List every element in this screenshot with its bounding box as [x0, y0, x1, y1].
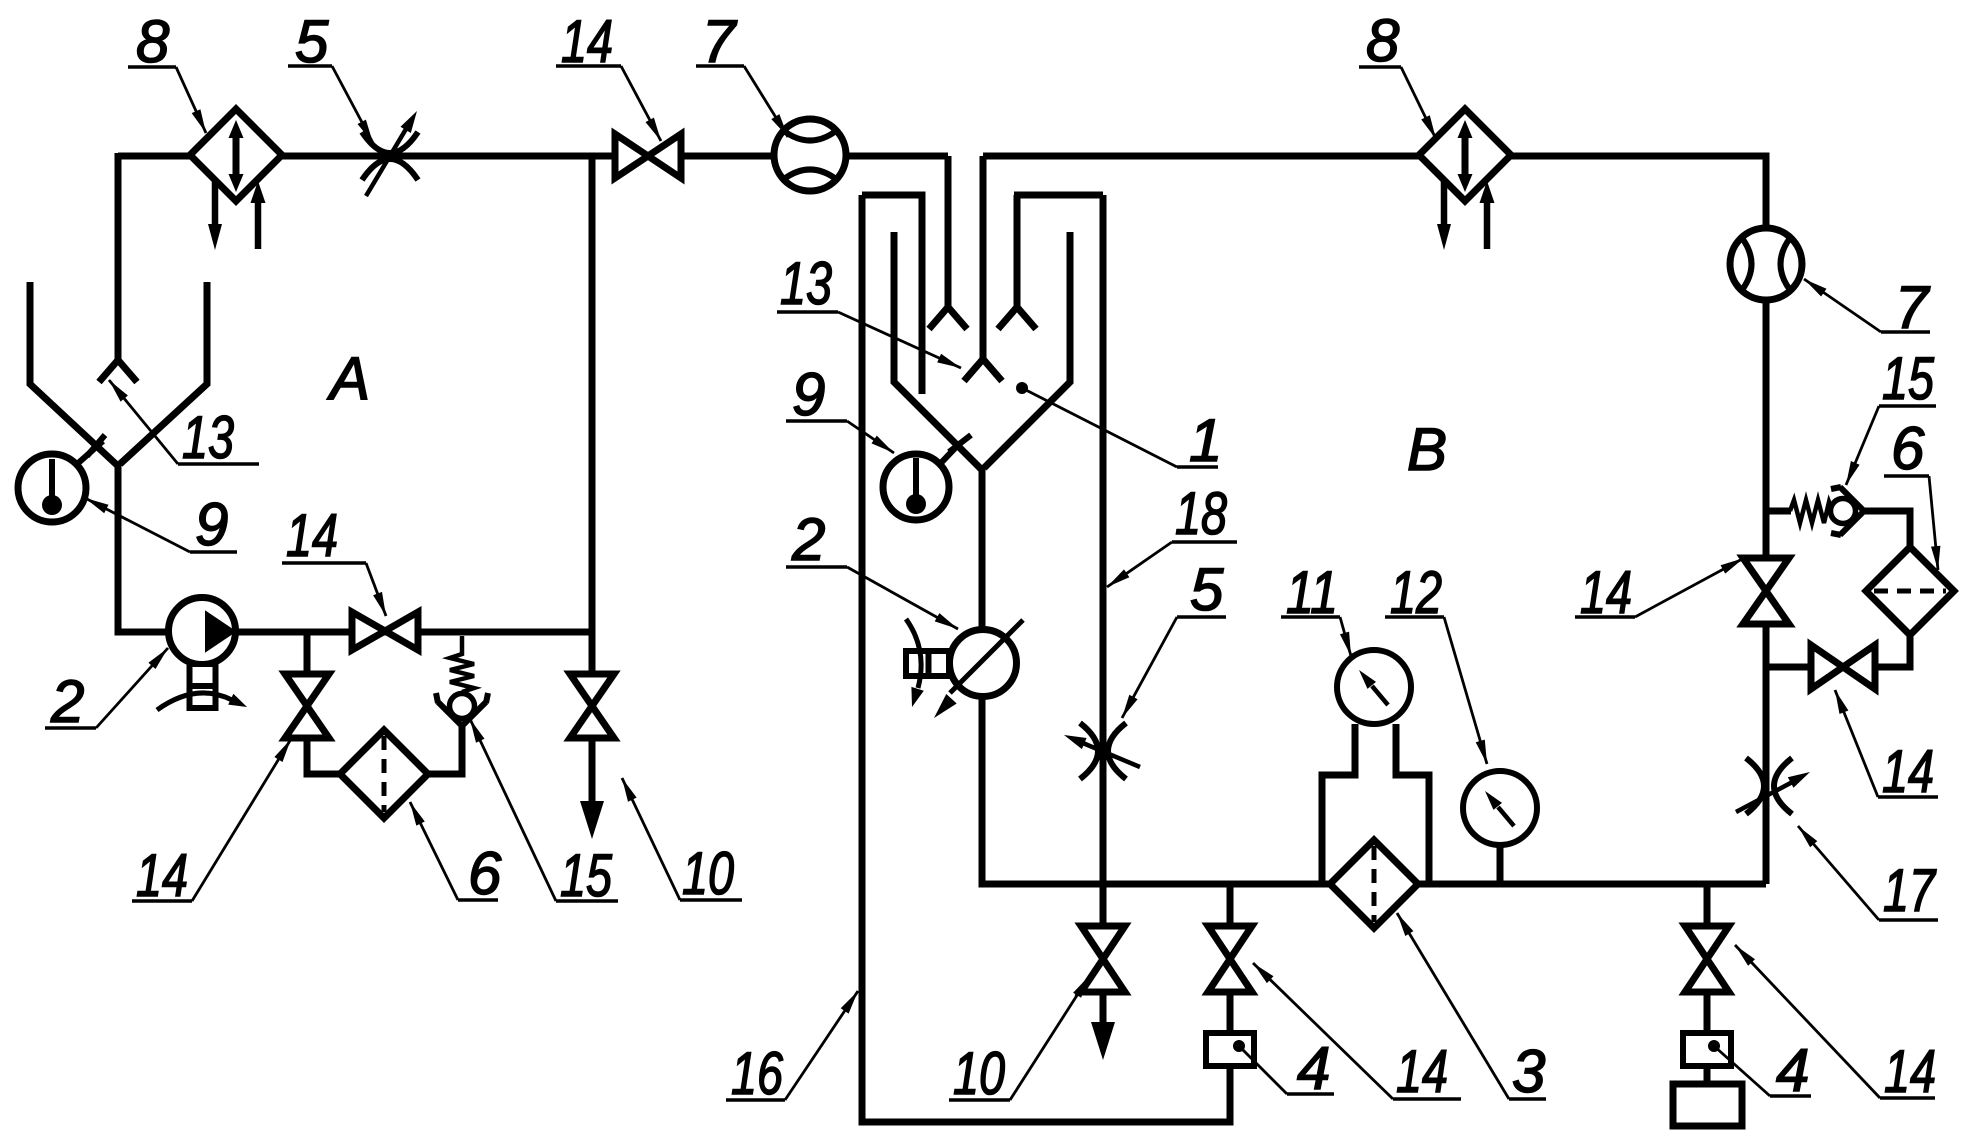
valve 14 on top line A [615, 134, 681, 178]
svg-text:15: 15 [560, 842, 612, 909]
throttle valve 17 arrow [1736, 779, 1798, 812]
wire filter 6B bottom to valve 14E to main [1766, 635, 1910, 667]
flow meter 7 circuit B [1730, 228, 1802, 300]
svg-text:10: 10 [682, 840, 734, 907]
pump 2C shaft [906, 651, 949, 676]
svg-text:14: 14 [286, 502, 338, 569]
svg-text:5: 5 [1190, 556, 1224, 623]
wire funnel V left wall and pump outlet to bottom line [894, 232, 1766, 884]
svg-text:17: 17 [1883, 857, 1937, 924]
tank rim left and inner wall [862, 195, 922, 394]
box 4 on line 16 [1206, 1033, 1254, 1066]
thermometer 9C tick [949, 435, 971, 452]
svg-text:4: 4 [1776, 1037, 1809, 1104]
valve 14 below filter 6B [1811, 645, 1875, 689]
valve 14 filter branch A [285, 674, 329, 738]
valve 14 drain right [1685, 926, 1729, 992]
drain arrowhead below valve 10C [1091, 1022, 1115, 1060]
svg-text:8: 8 [136, 8, 170, 75]
wire pipe B into tank funnel [980, 156, 987, 361]
wire funnel A left wall and outlet to pump [30, 282, 203, 632]
svg-text:18: 18 [1175, 480, 1227, 547]
heat exchanger 8 circuit A [190, 109, 282, 201]
wire seat to filter 6B [1863, 511, 1910, 547]
thermometer 9 circuit A [18, 454, 86, 522]
svg-text:3: 3 [1512, 1038, 1545, 1105]
throttle valve 17 arcs [1746, 758, 1792, 814]
pump 2A rotation arrow [157, 693, 232, 710]
wire top line circuit A [118, 153, 948, 160]
pressure gauge 12 [1463, 771, 1537, 845]
pump 2A triangle [207, 614, 233, 649]
wire top line B and right main vertical [983, 156, 1766, 884]
wire gauge pot left wall [1322, 724, 1355, 884]
wire left vertical into funnel A [115, 153, 122, 362]
svg-text:9: 9 [195, 491, 228, 558]
svg-text:14: 14 [1882, 738, 1934, 805]
wire gauge pot right wall [1396, 724, 1429, 884]
flow meter 7 circuit A [774, 119, 846, 191]
svg-text:15: 15 [1882, 345, 1934, 412]
wire line 16 left tank wall and bottom U [862, 195, 1230, 1122]
filter 6 circuit A [340, 730, 428, 818]
tank inner wall right with funnel mark [998, 195, 1036, 329]
throttle valve 5C arrow [1078, 741, 1140, 767]
filter 3 on bottom line [1330, 840, 1418, 928]
pump 2 central circle [950, 630, 1017, 697]
svg-text:2: 2 [50, 668, 84, 735]
svg-text:13: 13 [780, 250, 832, 317]
drain valve 10 central [1081, 926, 1125, 992]
wire line 18 with drain 10 [1100, 195, 1107, 1022]
valve 14 on right main line [1743, 558, 1789, 624]
svg-text:6: 6 [1891, 415, 1925, 482]
funnel mark 13 circuit A [99, 360, 137, 382]
wire branch to valve 14 and filter 6 [307, 632, 340, 774]
collection box below box 4 [1673, 1084, 1742, 1126]
throttle valve 5A arrow [366, 124, 409, 196]
pump 2A shaft [190, 664, 216, 708]
drain valve 10 circuit A [570, 674, 614, 738]
filter 6 circuit B [1866, 547, 1954, 635]
check valve 15B seat [1831, 487, 1864, 535]
valve 14 on line 16 [1208, 926, 1252, 992]
pressure gauge 11 [1337, 650, 1411, 724]
tank rim right [1014, 192, 1103, 199]
svg-text:8: 8 [1366, 7, 1400, 74]
box 4 drain right [1683, 1033, 1731, 1066]
check valve 15A seat [436, 693, 488, 726]
thermometer 9 central [883, 454, 949, 520]
svg-text:14: 14 [136, 842, 188, 909]
thermometer 9A tick [87, 435, 105, 456]
wire pipe from line A into tank [945, 156, 952, 309]
svg-text:2: 2 [791, 506, 825, 573]
heat exchanger 8 circuit B [1419, 109, 1511, 201]
wire gauge 12 stem [1497, 845, 1504, 884]
throttle valve 5 central arcs [1080, 723, 1126, 779]
wire drain stub D [1704, 884, 1711, 1090]
svg-text:1: 1 [1189, 407, 1222, 474]
drain arrowhead below valve 10A [580, 801, 604, 839]
pump 2C rotation arc [906, 619, 921, 688]
svg-text:13: 13 [182, 404, 234, 471]
wire funnel V right wall [984, 232, 1070, 468]
thermometer 9C stem [939, 444, 959, 465]
valve 14 after pump A [352, 612, 418, 650]
wire funnel A right wall [120, 282, 207, 464]
funnel mark 13 under pipe A [929, 307, 967, 329]
spring of check valve 15A [450, 636, 474, 692]
wire check valve branch B [1766, 508, 1791, 515]
throttle valve 5 circuit A arcs [362, 132, 418, 180]
svg-text:14: 14 [1396, 1038, 1448, 1105]
spring of check valve 15B [1790, 500, 1832, 523]
thermometer 9A stem [76, 441, 103, 465]
wire filter 6A to check valve 15A [428, 724, 462, 774]
pump 2C diagonal arrow [950, 620, 1023, 693]
svg-text:16: 16 [731, 1040, 783, 1107]
check valve 15B ball [1831, 499, 1856, 524]
wire branch vertical at x592 with drain [589, 156, 596, 801]
svg-text:14: 14 [1884, 1038, 1936, 1105]
svg-text:9: 9 [792, 361, 825, 428]
svg-text:6: 6 [468, 840, 502, 907]
svg-text:B: B [1407, 416, 1447, 483]
pump 2 circuit A circle [169, 598, 236, 665]
funnel mark 13 central [964, 359, 1002, 381]
wire pump A outlet [203, 629, 592, 636]
check valve 15A ball [450, 694, 475, 719]
svg-text:10: 10 [953, 1040, 1005, 1107]
svg-text:A: A [327, 345, 370, 412]
svg-text:4: 4 [1297, 1035, 1330, 1102]
